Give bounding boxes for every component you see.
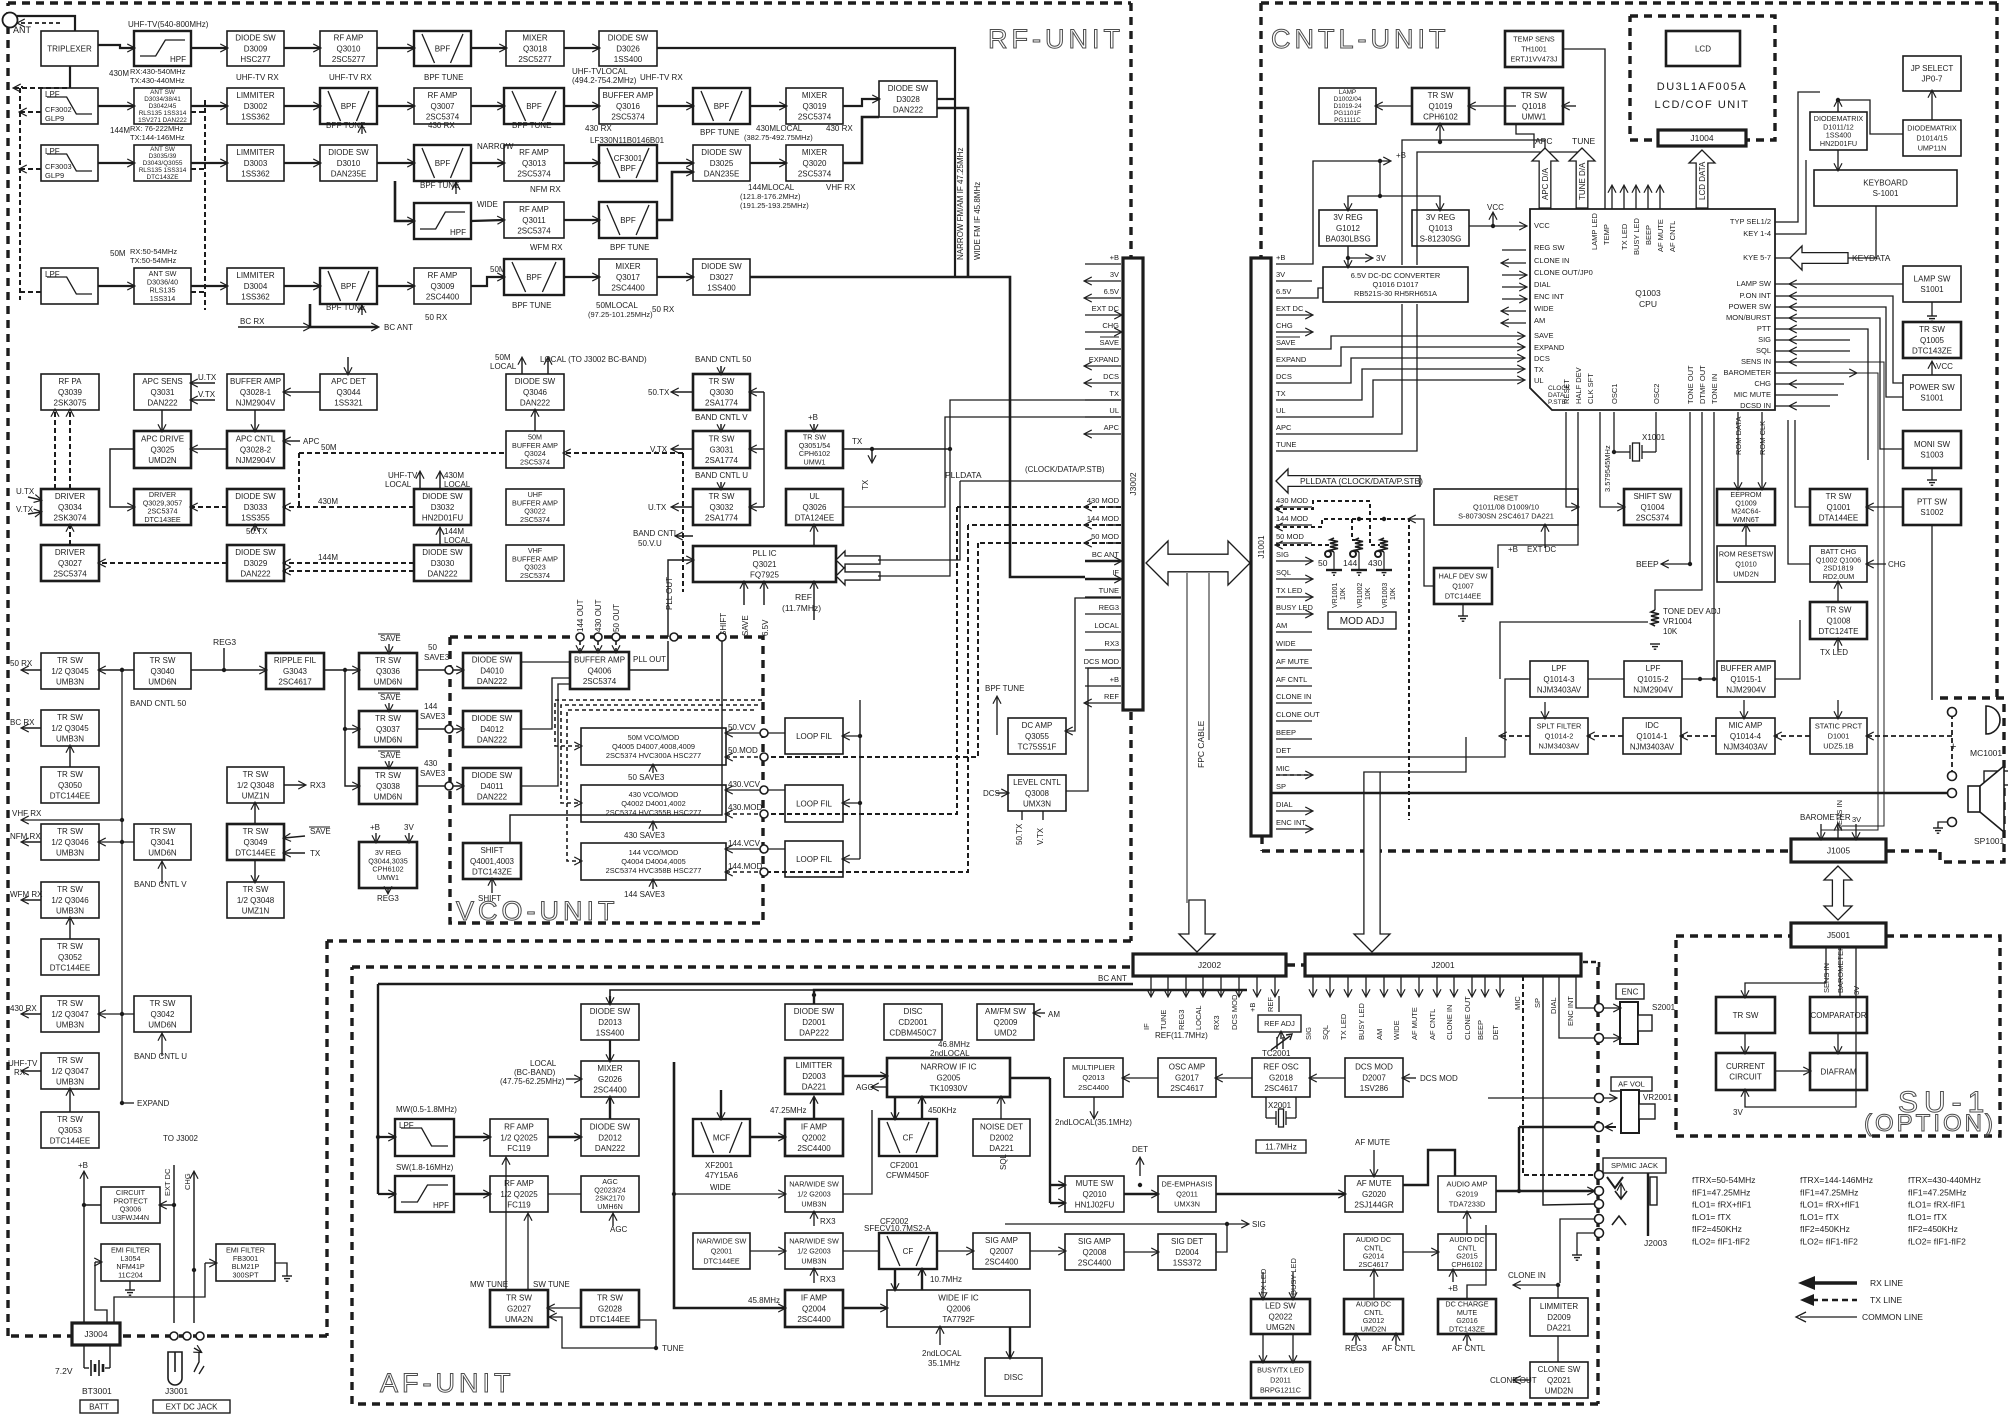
svg-text:TH1001: TH1001 <box>1521 45 1547 54</box>
svg-text:1/2 Q3045: 1/2 Q3045 <box>51 724 89 733</box>
J1005-J5001 arrow <box>1824 866 1852 920</box>
svg-text:1/2 Q3048: 1/2 Q3048 <box>237 781 275 790</box>
svg-text:REF: REF <box>795 592 812 602</box>
keyboard S-1001 <box>1814 170 1957 206</box>
J3002 pin +B wire <box>1085 263 1121 265</box>
svg-text:144.MOD: 144.MOD <box>728 862 762 871</box>
+b arrow <box>1348 160 1390 162</box>
emi filter FB3001 <box>216 1244 275 1281</box>
ring 50vcv <box>760 729 768 737</box>
svg-text:Q1010: Q1010 <box>1735 560 1757 569</box>
wire bc ant <box>310 326 378 328</box>
diode sw D3028 <box>879 81 937 117</box>
svg-text:UMB3N: UMB3N <box>56 906 84 915</box>
svg-text:430 RX: 430 RX <box>428 121 455 130</box>
dm chain <box>1837 100 1839 112</box>
ant dashed return <box>18 22 60 24</box>
arrow band cntl u <box>720 482 722 489</box>
svg-text:MIXER: MIXER <box>597 1064 623 1073</box>
svg-text:IF AMP: IF AMP <box>801 1123 827 1132</box>
svg-text:LOCAL: LOCAL <box>490 362 517 371</box>
svg-text:2ndLOCAL: 2ndLOCAL <box>930 1049 970 1058</box>
svg-text:UHF-TV RX: UHF-TV RX <box>329 73 372 82</box>
svg-text:MIXER: MIXER <box>522 34 548 43</box>
emi gnd <box>125 1290 135 1295</box>
PLLDATA arrow2 <box>836 567 880 585</box>
svg-text:BC RX: BC RX <box>10 718 35 727</box>
ant sw 144M <box>134 145 191 181</box>
svg-text:RX3: RX3 <box>310 781 326 790</box>
svg-text:D3029: D3029 <box>244 559 268 568</box>
VCO-UNIT border <box>450 637 763 923</box>
j2003 node2 <box>1595 1200 1604 1209</box>
wire bufferamp pllout <box>629 641 668 670</box>
svg-text:DTC144EE: DTC144EE <box>50 963 90 972</box>
diode sw D4011 <box>463 768 521 804</box>
svg-text:DRIVER: DRIVER <box>55 548 85 557</box>
idc Q1014-1 <box>1623 718 1681 754</box>
svg-text:G2020: G2020 <box>1362 1190 1387 1199</box>
ring 144save3 <box>445 725 453 733</box>
diode sw D4012 <box>463 711 521 747</box>
svg-text:BUSY LED: BUSY LED <box>1357 1002 1366 1040</box>
svg-text:AF CNTL: AF CNTL <box>1382 1344 1416 1353</box>
J3002 pin 6.5V wire <box>1085 297 1121 299</box>
svg-text:TR SW: TR SW <box>597 1294 623 1303</box>
vr2001 node1 <box>1595 1094 1604 1103</box>
svg-text:PLL OUT: PLL OUT <box>633 655 666 664</box>
bpftune arrow 430a <box>361 126 363 134</box>
svg-text:SAVE: SAVE <box>310 827 331 836</box>
d2001 feed <box>814 990 1247 1004</box>
REF ADJ label <box>1258 1015 1301 1032</box>
svg-text:NJM3403AV: NJM3403AV <box>1539 742 1580 751</box>
LPF CF3003 <box>41 145 98 181</box>
svg-text:TX LED: TX LED <box>1620 223 1629 250</box>
svg-text:RIPPLE FIL: RIPPLE FIL <box>274 656 317 665</box>
svg-text:50: 50 <box>428 643 437 652</box>
svg-text:G2018: G2018 <box>1269 1073 1294 1082</box>
bc ant wire af <box>378 983 1133 985</box>
wire bc vert <box>309 304 312 327</box>
half dev gnd <box>1458 616 1468 621</box>
audio amp G2019 <box>1438 1176 1496 1212</box>
af left bus <box>377 1137 379 1194</box>
svg-text:ROM DATA: ROM DATA <box>1734 417 1743 455</box>
current-diafram <box>1775 1070 1810 1072</box>
svg-text:Q3013: Q3013 <box>522 159 547 168</box>
svg-text:WIDE: WIDE <box>1392 1020 1401 1040</box>
half dev gnd wire <box>1462 604 1464 616</box>
wire triplexer to hpf row <box>98 45 134 48</box>
BPF narrow <box>414 145 471 181</box>
MCF XF2001 <box>693 1119 750 1156</box>
noise det up <box>1000 1097 1002 1119</box>
svg-text:CLONE OUT: CLONE OUT <box>1463 996 1472 1040</box>
dashed rfpa up1 <box>54 410 56 489</box>
svg-text:BEEP: BEEP <box>1476 1020 1485 1040</box>
sig line af <box>1005 1223 1227 1225</box>
EXT DC JACK label <box>153 1400 230 1413</box>
svg-text:AF CNTL: AF CNTL <box>1452 1344 1486 1353</box>
3v down to dcdc <box>1347 258 1349 267</box>
halfdev path <box>1498 412 1578 568</box>
svg-text:TR SW: TR SW <box>57 885 83 894</box>
ladder bus x122 <box>121 670 123 1103</box>
svg-text:REF(11.7MHz): REF(11.7MHz) <box>1155 1031 1208 1040</box>
svg-text:UMB3N: UMB3N <box>56 1020 84 1029</box>
SP label <box>1984 771 2008 785</box>
vco out dashed2 <box>597 641 599 652</box>
diode sw D3009 <box>227 31 284 66</box>
arrow uhf-tv local up <box>419 472 421 489</box>
svg-text:DA221: DA221 <box>1547 1323 1572 1332</box>
barometer route <box>1821 373 1878 836</box>
sig node <box>1225 1222 1229 1226</box>
144 mod dashed <box>726 871 764 873</box>
svg-text:DIODE SW: DIODE SW <box>422 492 463 501</box>
svg-text:MIC: MIC <box>1513 996 1522 1010</box>
dcsd wire <box>1790 405 1830 407</box>
typsel <box>1790 92 1820 222</box>
svg-text:(494.2-754.2MHz): (494.2-754.2MHz) <box>572 76 637 85</box>
svg-text:LIMMITER: LIMMITER <box>236 91 274 100</box>
driver Q3029 <box>134 489 191 525</box>
svg-text:BPF: BPF <box>620 164 636 173</box>
tr sw 1/2 Q3048 rx3 <box>227 767 284 803</box>
svg-text:430 RX: 430 RX <box>826 124 853 133</box>
svg-text:430.VCV: 430.VCV <box>728 780 761 789</box>
lpf feed <box>1510 678 1530 680</box>
UL Q3026 <box>786 489 843 525</box>
svg-text:D1002/04: D1002/04 <box>1334 96 1362 103</box>
svg-text:fIF1=47.25MHz: fIF1=47.25MHz <box>1908 1187 1966 1197</box>
svg-text:BEEP: BEEP <box>1276 728 1296 737</box>
keydata line <box>1848 206 1876 258</box>
svg-text:TR SW: TR SW <box>57 770 83 779</box>
svg-text:144M: 144M <box>318 553 338 562</box>
tune branch g2027 <box>550 1317 656 1348</box>
tr sw Q3053 <box>41 1112 99 1148</box>
svg-text:REF: REF <box>1104 692 1119 701</box>
svg-text:3V: 3V <box>1852 986 1861 995</box>
wire apcdrive-left <box>110 449 134 507</box>
wire tx right up <box>872 448 950 450</box>
svg-text:DATA: DATA <box>1548 392 1565 399</box>
mic dash v <box>1951 714 1953 772</box>
tr sw Q1008 <box>1810 602 1867 639</box>
audio dc cntl G2014 <box>1344 1234 1403 1270</box>
svg-text:BAND CNTL: BAND CNTL <box>633 529 679 538</box>
diodematrix D1014/15 <box>1903 120 1961 156</box>
BPF 50M2 <box>504 259 564 295</box>
j2003 gnd wire <box>1577 1233 1594 1255</box>
apc drive Q3025 <box>134 431 191 468</box>
svg-text:OSC1: OSC1 <box>1610 384 1619 404</box>
NFM RX ladder arrow <box>22 841 41 843</box>
svg-text:RF AMP: RF AMP <box>428 91 458 100</box>
svg-text:Q3038: Q3038 <box>376 782 401 791</box>
svg-text:DAN235E: DAN235E <box>704 169 740 178</box>
mod dashed wrap a <box>555 700 762 746</box>
svg-text:MON/BURST: MON/BURST <box>1726 313 1771 322</box>
pot VR mod 144 <box>1355 538 1363 552</box>
svg-text:SPLT FILTER: SPLT FILTER <box>1537 722 1582 731</box>
svg-text:DIODE SW: DIODE SW <box>590 1007 631 1016</box>
svg-text:LPF: LPF <box>45 147 60 156</box>
J3002 pin TX wire <box>1085 399 1121 401</box>
svg-text:RX: 76-222MHz: RX: 76-222MHz <box>130 124 184 133</box>
svg-text:DTC144EE: DTC144EE <box>703 1256 740 1265</box>
J3002 pin DCS wire <box>1085 382 1121 384</box>
arrow 430m local up <box>439 472 441 489</box>
arrow band cntl 50 <box>720 366 722 374</box>
svg-text:UMA2N: UMA2N <box>505 1315 533 1324</box>
J2002 pin fan <box>1150 976 1152 996</box>
dashed 430MOD long <box>957 506 1121 508</box>
svg-text:LPF: LPF <box>45 90 60 99</box>
svg-text:EXT DC: EXT DC <box>1276 304 1304 313</box>
svg-text:1/2 Q3046: 1/2 Q3046 <box>51 896 89 905</box>
dc charge mute G2016 <box>1438 1299 1496 1334</box>
2ndlocal arrow <box>939 1327 941 1345</box>
emi filter L3054 <box>101 1244 160 1281</box>
svg-text:Q3052: Q3052 <box>58 953 83 962</box>
svg-text:1SS321: 1SS321 <box>334 398 363 407</box>
ladder dot 820 <box>120 818 124 822</box>
50M vco/mod <box>581 728 726 765</box>
mixer Q3020 <box>786 145 843 181</box>
144 save3 below <box>652 880 654 889</box>
svg-text:POWER SW: POWER SW <box>1729 302 1772 311</box>
row link nfm <box>99 841 134 843</box>
svg-text:CF3002: CF3002 <box>45 105 72 114</box>
svg-text:SENS IN: SENS IN <box>1822 963 1831 993</box>
svg-text:J1004: J1004 <box>1690 133 1713 143</box>
svg-text:Q3032: Q3032 <box>709 503 734 512</box>
svg-text:WIDE: WIDE <box>477 200 498 209</box>
enc ring1 wire <box>1604 1007 1620 1009</box>
j3001 ring0 <box>170 1332 178 1340</box>
limitter D2003 <box>785 1058 843 1094</box>
CNTL-UNIT border left <box>1259 3 1262 257</box>
J3002 pin SAVE ovl <box>1100 336 1119 338</box>
g2016 path <box>1467 1225 1486 1299</box>
svg-text:SAVE3: SAVE3 <box>420 712 446 721</box>
mw tune vert <box>505 1158 507 1291</box>
shift sw in <box>1600 412 1624 507</box>
J3002 pin REF wire <box>1085 702 1121 704</box>
wide vert line <box>674 1062 785 1308</box>
FPC thin vert a <box>1186 573 1188 903</box>
J3002 pin IF bold <box>1085 578 1121 581</box>
svg-text:TR SW: TR SW <box>57 999 83 1008</box>
arrow v.tx <box>672 448 693 450</box>
sw tune vert <box>527 1214 529 1291</box>
wire bpf-mixerQ3018 <box>471 47 506 49</box>
svg-text:Q3021: Q3021 <box>752 560 777 569</box>
svg-text:1SS362: 1SS362 <box>241 112 270 121</box>
svg-text:BPF: BPF <box>435 159 451 168</box>
svg-text:AM: AM <box>1375 1029 1384 1040</box>
speaker SP1001 <box>1968 766 2004 832</box>
limmiter-clone sw <box>1557 1336 1559 1362</box>
ladder dot 842 <box>120 840 124 844</box>
svg-text:Q3019: Q3019 <box>802 102 827 111</box>
svg-text:(11.7MHz): (11.7MHz) <box>782 603 821 613</box>
J1001 to CPU staircase wires <box>1312 336 1524 349</box>
ladder dot 1103 <box>120 1101 124 1105</box>
pot VR mod 430 <box>1380 538 1388 552</box>
svg-text:50M: 50M <box>321 443 337 452</box>
limitter up <box>813 1097 815 1119</box>
svg-text:DTC143ZE: DTC143ZE <box>147 174 179 181</box>
ring 144mod <box>760 868 768 876</box>
rotary encoder S2001 <box>1620 1002 1652 1044</box>
dashed 50m path <box>299 452 506 454</box>
svg-text:D3033: D3033 <box>244 503 268 512</box>
svg-text:Q3016: Q3016 <box>616 102 641 111</box>
rx3 up arrow2 <box>813 1269 815 1283</box>
svg-text:DIODE SW: DIODE SW <box>328 148 369 157</box>
sp bold line <box>1272 792 1948 795</box>
svg-text:300SPT: 300SPT <box>233 1270 260 1279</box>
svg-text:SAVE: SAVE <box>380 751 401 760</box>
J3002 pin LOCAL wire <box>1085 631 1121 633</box>
svg-text:50 SAVE3: 50 SAVE3 <box>628 773 665 782</box>
svg-text:Q1005: Q1005 <box>1920 336 1945 345</box>
J3002 pin APC wire <box>1085 433 1121 435</box>
sp bold to jack <box>1543 976 1594 1205</box>
diode sw D2012 <box>581 1119 639 1156</box>
svg-text:J3004: J3004 <box>84 1329 107 1339</box>
CNTL-UNIT border bottom2 <box>1887 849 1940 852</box>
svg-text:DTA124EE: DTA124EE <box>795 513 834 522</box>
svg-text:50M: 50M <box>490 265 506 274</box>
PLLDATA big arrow <box>1276 469 1420 493</box>
q1018 in arrow <box>1563 105 1576 107</box>
svg-text:CF3001: CF3001 <box>614 154 643 163</box>
SP/MIC JACK label <box>1603 1158 1666 1173</box>
svg-text:RF AMP: RF AMP <box>504 1179 534 1188</box>
svg-text:BPF: BPF <box>341 102 357 111</box>
s2001 node1 <box>1595 1004 1604 1013</box>
svg-text:BUSY LED: BUSY LED <box>1276 603 1314 612</box>
emi2 path <box>114 1263 205 1323</box>
+b arrow batt <box>83 1172 85 1186</box>
lpf3 out <box>1588 678 1624 680</box>
save ovl bar3 <box>378 750 400 752</box>
tc2001 wire <box>1280 1032 1282 1039</box>
svg-text:TYP SEL1/2: TYP SEL1/2 <box>1730 217 1771 226</box>
svg-text:MW(0.5-1.8MHz): MW(0.5-1.8MHz) <box>396 1105 457 1114</box>
svg-text:DAN222: DAN222 <box>477 677 508 686</box>
svg-text:430 SAVE3: 430 SAVE3 <box>624 831 665 840</box>
wide node <box>672 1192 676 1196</box>
svg-text:DIAL: DIAL <box>1549 997 1558 1014</box>
limmiter up wire <box>1557 1285 1559 1298</box>
wire rfampQ3009 right <box>471 277 504 286</box>
svg-text:450KHz: 450KHz <box>928 1106 956 1115</box>
svg-text:ANT SW: ANT SW <box>150 146 176 153</box>
svg-text:Q3055: Q3055 <box>1025 732 1050 741</box>
svg-text:D3032: D3032 <box>431 503 455 512</box>
svg-text:(47.75-62.25MHz): (47.75-62.25MHz) <box>500 1077 565 1086</box>
svg-text:WMN6T: WMN6T <box>1733 515 1760 524</box>
wire vtx in <box>28 512 41 514</box>
svg-text:TUNE: TUNE <box>1099 586 1119 595</box>
svg-text:TR SW: TR SW <box>375 714 401 723</box>
svg-text:NJM3403AV: NJM3403AV <box>1537 685 1582 694</box>
sig amp Q2007 <box>973 1233 1030 1269</box>
svg-text:SAVE: SAVE <box>741 615 750 636</box>
tr sw 1/2 Q3047 430 <box>41 996 99 1032</box>
wire pllout path <box>668 560 693 637</box>
svg-text:TONE OUT: TONE OUT <box>1686 365 1695 404</box>
svg-text:UMW1: UMW1 <box>1522 112 1547 121</box>
svg-text:TR SW: TR SW <box>709 492 735 501</box>
wire d3025-mixer Q3020 <box>750 162 786 164</box>
vol arrow in <box>1604 1097 1616 1099</box>
svg-text:D3027: D3027 <box>710 273 734 282</box>
svg-text:TR SW: TR SW <box>506 1294 532 1303</box>
svg-text:DTC144EE: DTC144EE <box>1445 591 1482 600</box>
svg-text:DTMF OUT: DTMF OUT <box>1698 365 1707 404</box>
svg-text:CLONE IN: CLONE IN <box>1508 1271 1546 1280</box>
svg-text:2ndLOCAL(35.1MHz): 2ndLOCAL(35.1MHz) <box>1055 1118 1132 1127</box>
svg-text:2SC4400: 2SC4400 <box>611 283 645 292</box>
svg-text:(OPTION): (OPTION) <box>1864 1110 1996 1137</box>
mcf out <box>750 1136 785 1138</box>
svg-text:DISC: DISC <box>1004 1373 1023 1382</box>
tone in node <box>1712 677 1716 681</box>
svg-text:50.MOD: 50.MOD <box>728 746 758 755</box>
powersw2 <box>1790 307 1903 397</box>
svg-text:UMD2N: UMD2N <box>1545 1386 1574 1395</box>
svg-text:1/2 Q2025: 1/2 Q2025 <box>500 1133 538 1142</box>
svg-text:UMD6N: UMD6N <box>374 792 403 801</box>
svg-text:DAN222: DAN222 <box>477 735 508 744</box>
svg-text:AF CNTL: AF CNTL <box>1276 675 1307 684</box>
svg-text:CLONE OUT: CLONE OUT <box>1276 710 1320 719</box>
svg-text:fLO1= fTX: fLO1= fTX <box>1908 1212 1947 1222</box>
svg-text:2SC5374 HVC358B HSC277: 2SC5374 HVC358B HSC277 <box>606 866 702 875</box>
multiplier down <box>1093 1097 1095 1118</box>
svg-text:HN2D01FU: HN2D01FU <box>422 513 464 522</box>
svg-text:HN2D01FU: HN2D01FU <box>1820 139 1857 148</box>
svg-text:SHIFT: SHIFT <box>480 846 503 855</box>
430 mod dash <box>1276 501 1380 545</box>
svg-text:REG3: REG3 <box>213 637 236 647</box>
trsw-current <box>1744 1033 1746 1053</box>
lpf2 out <box>1682 678 1717 680</box>
svg-text:DU3L1AF005A: DU3L1AF005A <box>1657 81 1748 93</box>
if amp Q2002 <box>785 1119 843 1156</box>
svg-text:MIC MUTE: MIC MUTE <box>1734 390 1771 399</box>
romreset-eeprom <box>1745 525 1747 546</box>
svg-text:NFM RX: NFM RX <box>530 185 561 194</box>
svg-text:BAND CNTL 50: BAND CNTL 50 <box>695 355 752 364</box>
svg-text:VCC: VCC <box>1936 362 1953 371</box>
svg-text:MIC: MIC <box>1276 764 1290 773</box>
50 save3 below <box>652 765 654 773</box>
svg-text:UMZ1N: UMZ1N <box>242 791 270 800</box>
svg-text:TX: TX <box>861 479 870 490</box>
tone pot left wire <box>1500 622 1648 679</box>
svg-text:Q3036: Q3036 <box>376 667 401 676</box>
svg-text:SIG: SIG <box>1304 1027 1313 1040</box>
svg-text:DCS: DCS <box>1534 354 1550 363</box>
